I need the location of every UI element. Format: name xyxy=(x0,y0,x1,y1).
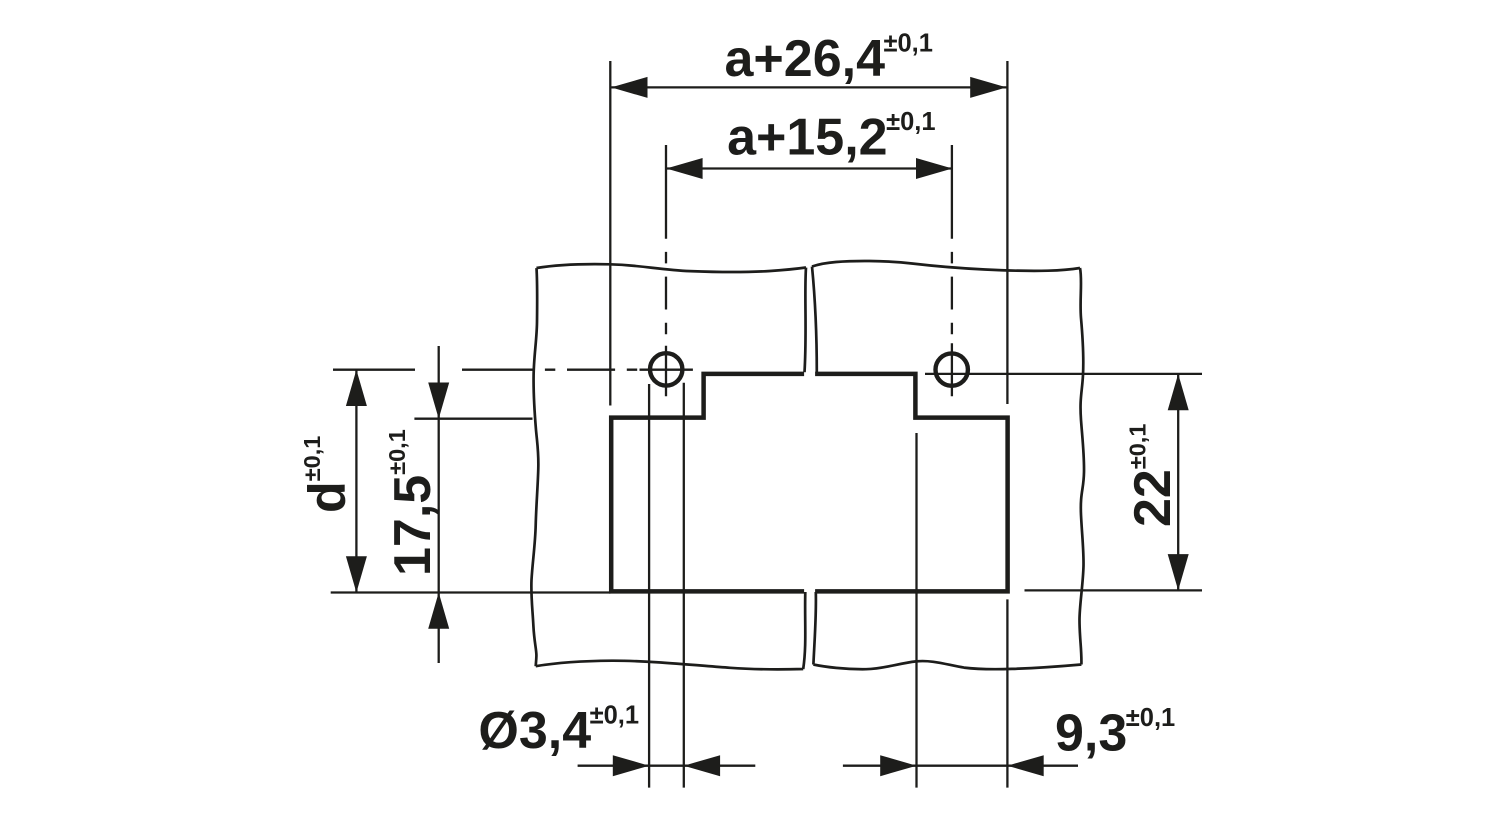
arrowhead a+26,4 right xyxy=(970,77,1006,98)
left panel outline xyxy=(531,264,806,669)
dimension line a+26,4 xyxy=(611,86,1006,88)
panel cut-out edge (thick) right part xyxy=(815,374,1008,592)
dimension line 17,5 xyxy=(438,346,440,663)
hole circle right xyxy=(936,353,968,385)
arrowhead d bottom xyxy=(346,556,367,592)
arrowhead d top xyxy=(346,370,367,406)
dimension line a+15,2 xyxy=(666,167,952,169)
arrowhead 9,3 right (pointing left) xyxy=(1007,755,1043,776)
extension line top for 22 xyxy=(925,373,1202,375)
arrowhead 9,3 left (pointing right) xyxy=(880,755,916,776)
dimension line 9,3 xyxy=(843,765,1078,767)
dimension line d xyxy=(355,370,357,593)
arrowhead 17,5 top (outside, pointing down) xyxy=(428,383,449,419)
svg-text:a+26,4±0,1: a+26,4±0,1 xyxy=(725,29,933,88)
hole circle left xyxy=(650,353,682,385)
vertical centerline right hole xyxy=(951,145,953,396)
arrowhead 22 top xyxy=(1168,374,1189,410)
extension line top for 17,5 xyxy=(414,418,532,420)
arrowhead diameter 3,4 left (pointing right) xyxy=(613,755,649,776)
extension line left for 9,3 xyxy=(915,433,917,788)
extension line right for diameter 3,4 xyxy=(683,383,685,788)
right panel outline xyxy=(812,261,1084,669)
dimension line diameter 3,4 xyxy=(578,765,756,767)
svg-text:9,3±0,1: 9,3±0,1 xyxy=(1055,704,1175,763)
svg-text:a+15,2±0,1: a+15,2±0,1 xyxy=(727,108,935,167)
arrowhead a+15,2 right xyxy=(916,158,952,179)
extension line bottom for 22 xyxy=(1025,589,1203,591)
arrowhead 17,5 bottom (outside, pointing up) xyxy=(428,593,449,629)
arrowhead a+15,2 left xyxy=(666,158,702,179)
arrowhead 22 bottom xyxy=(1168,554,1189,590)
svg-text:d±0,1: d±0,1 xyxy=(299,436,357,513)
horizontal centerline through left hole xyxy=(333,369,693,371)
extension line left for diameter 3,4 xyxy=(648,384,650,788)
dimension line 22 xyxy=(1177,374,1179,591)
vertical centerline left hole xyxy=(665,145,667,396)
extension line right for a+26,4 and 9,3 xyxy=(1006,61,1008,788)
arrowhead diameter 3,4 right (pointing left) xyxy=(684,755,720,776)
arrowhead a+26,4 left xyxy=(611,77,647,98)
panel cut-out edge (thick) left part xyxy=(611,374,804,592)
svg-text:22±0,1: 22±0,1 xyxy=(1124,424,1182,527)
svg-text:Ø3,4±0,1: Ø3,4±0,1 xyxy=(478,702,639,761)
extension line left for a+26,4 xyxy=(609,61,611,406)
svg-text:17,5±0,1: 17,5±0,1 xyxy=(384,429,442,576)
extension line bottom left (d and 17,5) xyxy=(331,591,611,593)
